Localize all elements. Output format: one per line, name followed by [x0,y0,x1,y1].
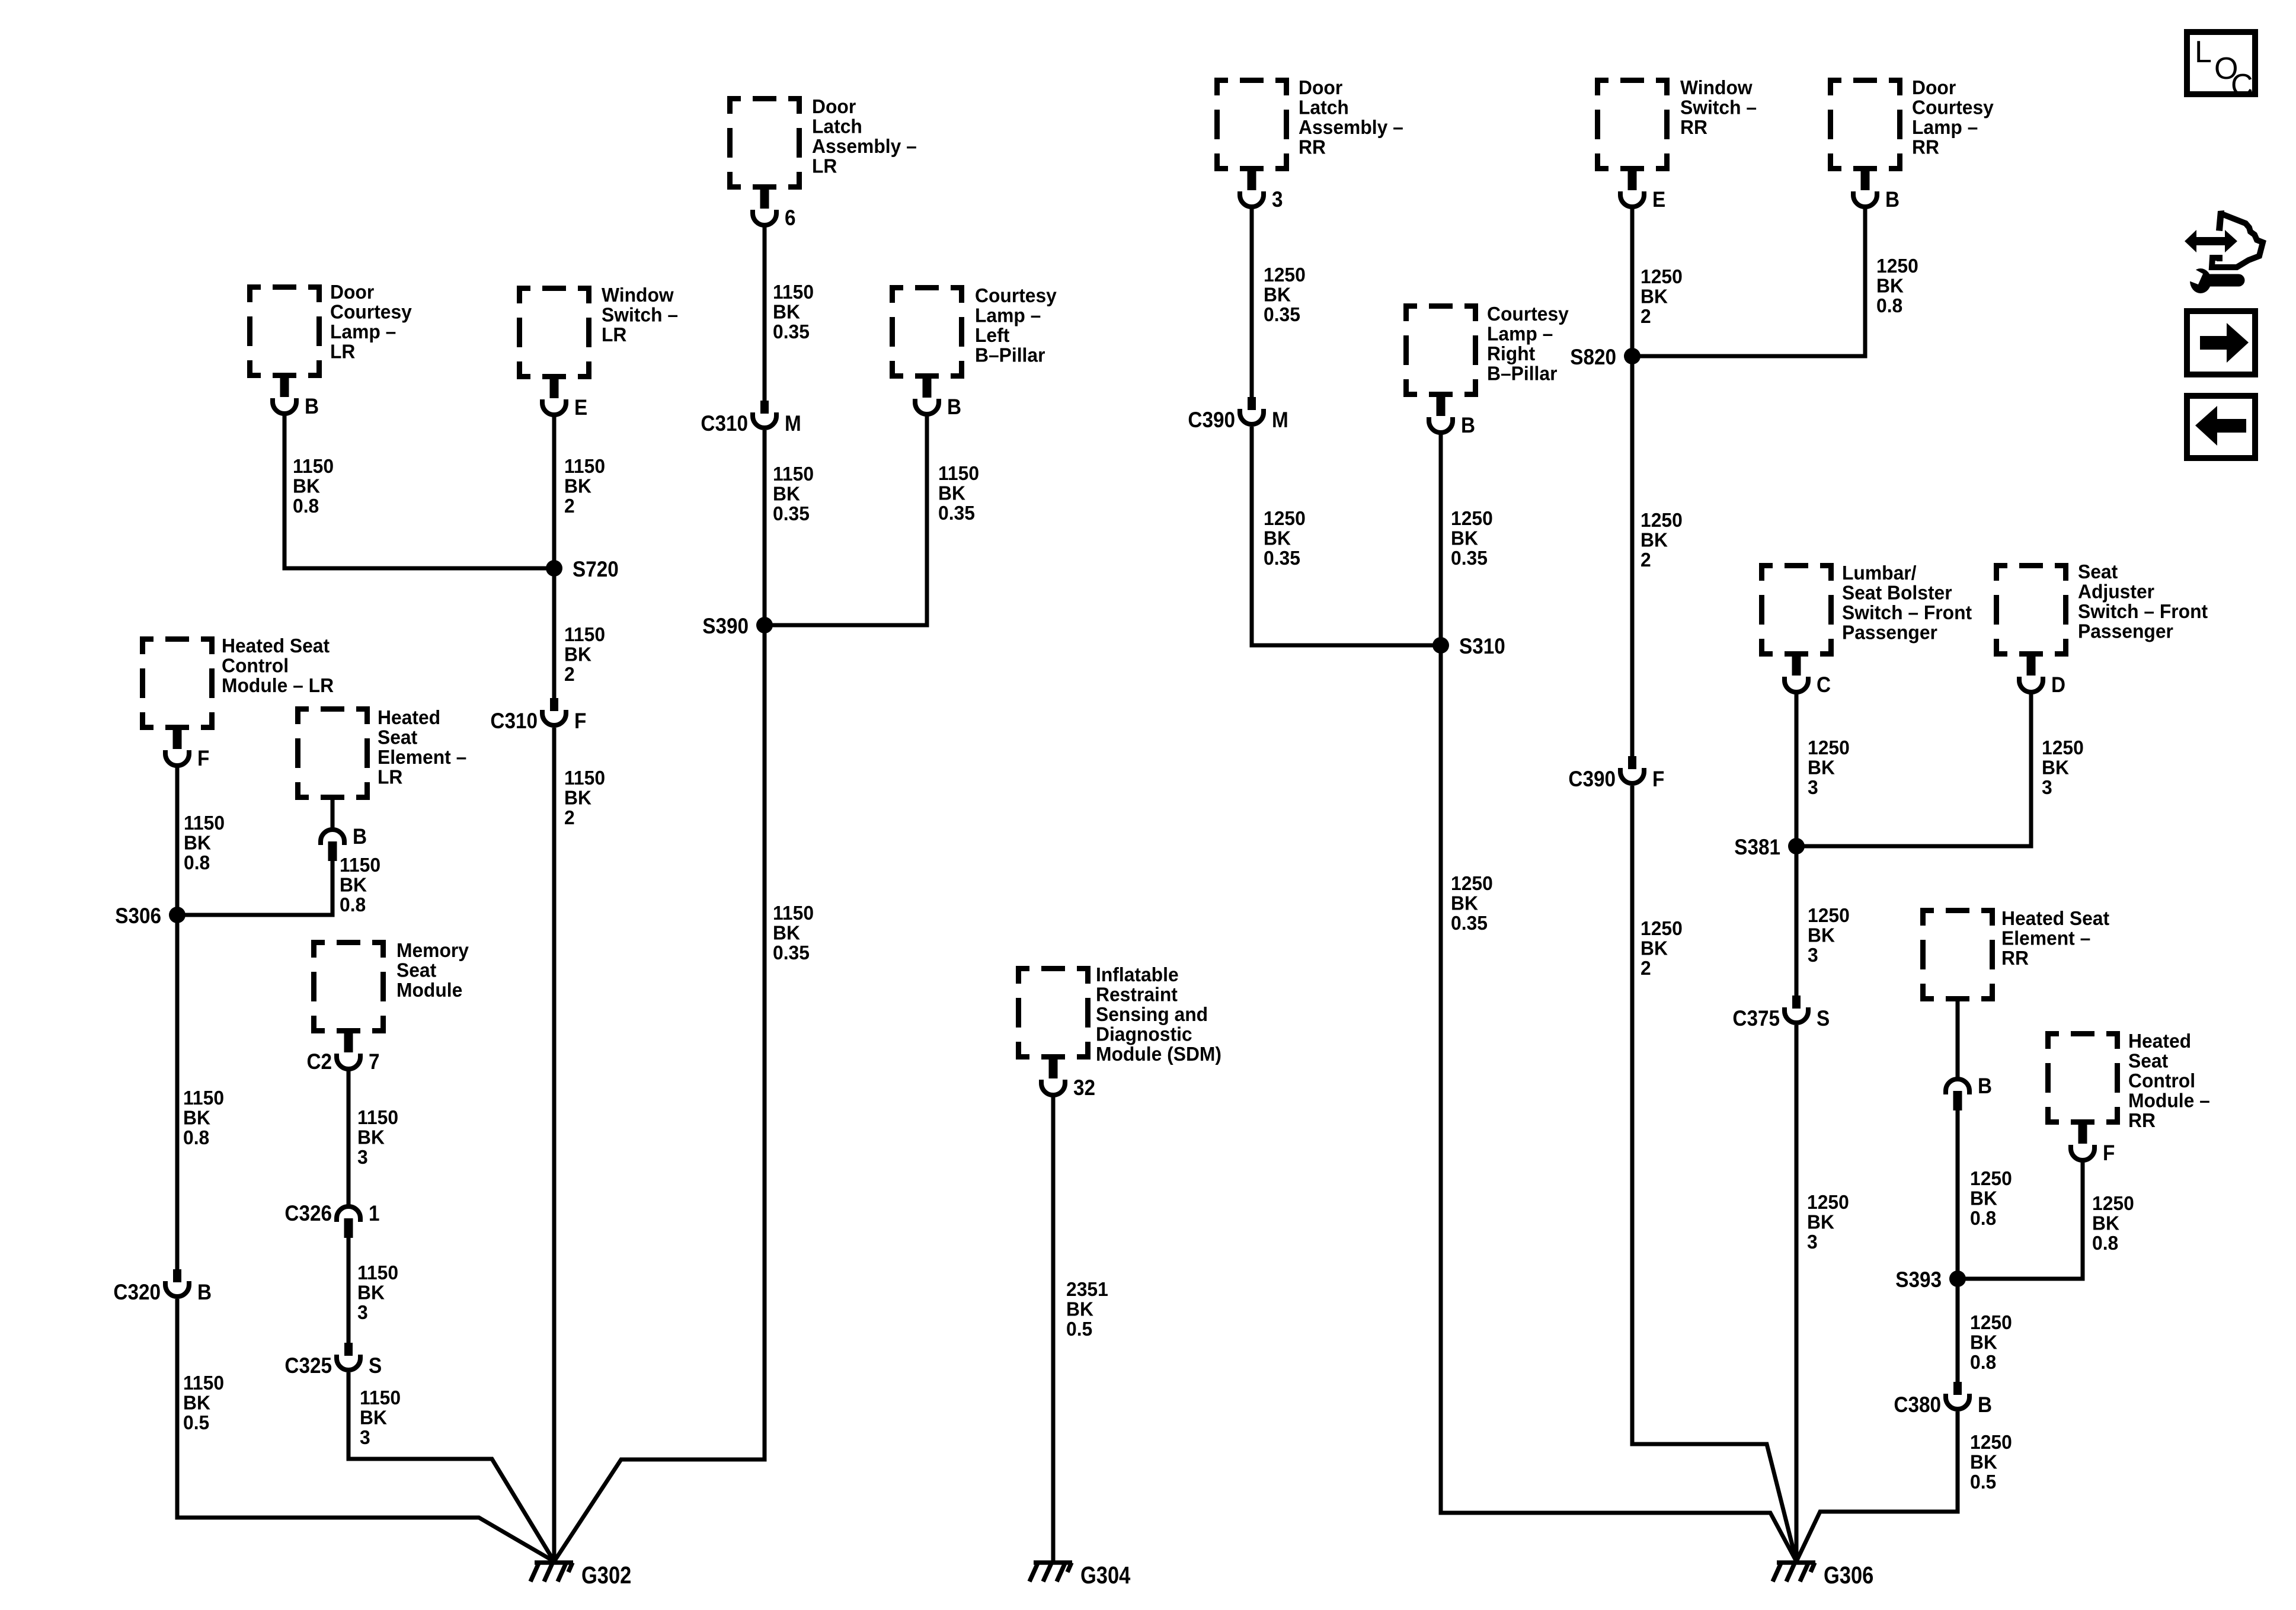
connector pin E: Window Switch - RR [1620,170,1665,212]
svg-text:S381: S381 [1734,835,1780,859]
component box: Door Latch Assembly - LR [727,96,802,190]
svg-text:2: 2 [564,494,575,517]
legend LOC box [2187,32,2255,103]
svg-text:C380: C380 [1894,1393,1941,1417]
svg-text:BK: BK [564,786,591,809]
svg-text:RR: RR [2128,1109,2156,1131]
svg-text:Heated Seat: Heated Seat [2001,907,2109,929]
svg-text:Heated Seat: Heated Seat [222,634,330,657]
svg-text:2: 2 [564,662,575,685]
svg-text:Memory: Memory [396,939,469,961]
wire value label: 1250 BK 0.35 [1451,507,1493,569]
svg-text:B: B [1885,187,1900,212]
svg-text:S310: S310 [1459,634,1505,658]
svg-text:Module (SDM): Module (SDM) [1096,1042,1221,1065]
wire 1150 BK 3 from Memory Seat Module C2 pin 7 to C326 [347,1069,351,1205]
svg-text:Sensing and: Sensing and [1096,1003,1208,1025]
wire value label: 1150 BK 0.35 [773,462,814,524]
svg-text:Diagnostic: Diagnostic [1096,1023,1192,1045]
svg-text:Control: Control [222,654,289,677]
svg-text:F: F [2103,1141,2115,1165]
svg-text:1250: 1250 [2092,1192,2134,1214]
in-line connector C375 pin S: C375 pin S [1732,996,1830,1030]
label: Memory Seat Module description text [396,939,469,1001]
svg-text:1250: 1250 [1641,265,1683,287]
svg-text:1150: 1150 [773,462,814,485]
svg-text:Seat: Seat [2128,1049,2168,1072]
label: Inflatable Restraint Sensing and Diagnostic Module (SDM) description text [1096,963,1221,1065]
svg-text:BK: BK [1451,892,1478,914]
svg-text:Lamp –: Lamp – [975,304,1041,327]
svg-text:Inflatable: Inflatable [1096,963,1179,985]
svg-text:BK: BK [184,831,211,854]
svg-text:BK: BK [938,482,965,504]
svg-text:Door: Door [330,280,374,303]
svg-text:Lamp –: Lamp – [1912,116,1978,138]
ground G304 [1029,1562,1130,1589]
wire value label: 1150 BK 2 [564,766,605,828]
svg-text:C: C [1817,673,1831,697]
svg-text:Latch: Latch [1299,96,1349,119]
svg-text:BK: BK [293,475,320,497]
svg-text:0.8: 0.8 [183,1126,209,1148]
wire 2351 BK 0.5 from SDM pin 32 to G304 [1051,1095,1056,1561]
wire value label: 1250 BK 2 [1641,917,1683,979]
svg-text:Passenger: Passenger [2078,620,2173,642]
svg-text:Element –: Element – [2001,927,2090,949]
svg-text:Courtesy: Courtesy [975,284,1057,306]
in-line connector C310 pin M: C310 pin M [701,401,801,436]
svg-text:0.35: 0.35 [773,502,810,524]
svg-text:3: 3 [1272,187,1283,212]
svg-text:Courtesy: Courtesy [1487,302,1569,325]
component box: Courtesy Lamp - Left B-Pillar [890,285,964,379]
svg-text:BK: BK [773,482,800,505]
splice junction S390 [702,614,773,638]
ground G306 [1773,1562,1873,1589]
wire 1250 BK 3 from S381 to C375 [1795,846,1799,998]
wire 1150 BK 2 from Window Switch LR pin E to S720 [552,415,557,568]
svg-text:0.5: 0.5 [183,1411,209,1433]
svg-text:1150: 1150 [938,462,979,484]
svg-text:BK: BK [1970,1187,1997,1209]
wire 1250 BK 0.35 from C390 M to S310 [1252,427,1441,645]
svg-text:LR: LR [602,323,626,345]
svg-text:BK: BK [183,1106,210,1129]
svg-text:LR: LR [330,340,355,363]
svg-text:S393: S393 [1895,1267,1942,1292]
wire value label: 1250 BK 0.5 [1970,1430,2012,1493]
wire 1150 BK 0.35 from C310 M to S390 [763,430,767,625]
svg-text:C390: C390 [1568,767,1616,791]
wire 1250 BK 3 from C375 S to G306 [1795,1025,1799,1561]
svg-text:Courtesy: Courtesy [1912,96,1994,119]
svg-text:Switch – Front: Switch – Front [1842,601,1972,623]
in-line connector C326 pin 1: C326 pin 1 [284,1201,379,1238]
svg-text:1250: 1250 [1641,508,1683,531]
component box: Lumbar/Seat Bolster Switch - Front Passenger [1759,563,1834,657]
svg-text:0.35: 0.35 [938,501,975,524]
svg-text:1250: 1250 [1451,872,1493,894]
svg-text:0.5: 0.5 [1970,1470,1996,1493]
legend icon: component repair reference (door outline, double arrow, wrench) [2183,210,2263,293]
svg-text:Adjuster: Adjuster [2078,580,2154,603]
splice junction S820 [1570,345,1641,369]
svg-text:BK: BK [1641,285,1668,308]
svg-text:Assembly –: Assembly – [1299,116,1403,138]
svg-text:1150: 1150 [360,1386,401,1409]
wire value label: 1150 BK 0.5 [183,1371,224,1433]
label: Heated Seat Element - RR description text [2001,907,2109,969]
svg-text:1: 1 [369,1201,380,1225]
wire 1250 BK 3 from Seat Adjuster Switch pin D to S381 [1796,692,2031,846]
wire 1150 BK 0.8 from S306 to C320 [175,915,180,1272]
svg-text:C310: C310 [490,709,538,733]
svg-text:Module – LR: Module – LR [222,674,334,696]
svg-text:B–Pillar: B–Pillar [1487,362,1558,385]
svg-text:G302: G302 [581,1562,631,1589]
svg-text:1150: 1150 [773,901,814,924]
svg-text:1150: 1150 [357,1106,398,1128]
svg-text:0.8: 0.8 [1970,1350,1996,1373]
wire 1250 BK 0.8 from S393 to C380 [1956,1279,1960,1384]
connector pin 32: SDM pin 32 [1041,1058,1095,1100]
svg-text:Assembly –: Assembly – [812,135,917,157]
wire value label: 1250 BK 2 [1641,265,1683,327]
svg-text:B: B [1461,413,1475,437]
svg-text:1150: 1150 [564,454,605,477]
svg-text:B: B [1978,1393,1992,1417]
svg-text:RR: RR [1912,136,1939,158]
svg-text:1250: 1250 [1808,736,1850,758]
svg-text:C: C [2231,68,2253,103]
svg-text:C390: C390 [1188,408,1235,432]
connector pin F: Heated Seat Control Module - RR [2071,1124,2115,1165]
svg-text:Seat Bolster: Seat Bolster [1842,581,1952,604]
wire 1150 BK 0.35 from S390 to G302 [554,625,765,1561]
svg-text:Right: Right [1487,342,1535,364]
label: Heated Seat Control Module - LR description text [222,634,334,696]
splice junction S393 [1895,1267,1966,1292]
wire 1150 BK 0.8 from Heated Seat Control Module LR pin F to S306 [175,766,180,915]
svg-text:BK: BK [1808,924,1835,946]
connector pin 3: Door Latch Assembly - RR [1240,170,1283,212]
svg-text:3: 3 [1807,1230,1818,1253]
svg-text:Module –: Module – [2128,1089,2210,1112]
in-line connector C390 pin M: C390 pin M [1188,397,1288,432]
wire 1250 BK 2 from C390 F to G306 [1632,786,1796,1561]
wire value label: 1250 BK 0.35 [1264,263,1306,325]
svg-text:1250: 1250 [1451,507,1493,529]
svg-text:B: B [1978,1074,1992,1098]
svg-text:0.8: 0.8 [293,494,319,517]
component box: Inflatable Restraint Sensing and Diagnostic Module (SDM) [1016,966,1091,1060]
svg-text:S: S [1817,1006,1830,1030]
label: Heated Seat Control Module - RR description text [2128,1029,2210,1131]
svg-text:C2: C2 [306,1049,332,1074]
svg-text:Passenger: Passenger [1842,621,1937,644]
svg-text:0.8: 0.8 [340,893,366,916]
svg-text:LR: LR [812,155,837,177]
svg-text:S720: S720 [573,557,619,581]
svg-text:S: S [369,1353,382,1378]
svg-text:Lumbar/: Lumbar/ [1842,561,1916,584]
svg-text:Switch –: Switch – [1680,96,1757,119]
wire 1250 BK 2 from Window Switch RR pin E to S820 [1630,207,1635,356]
component box: Window Switch - RR [1595,78,1670,171]
svg-text:1250: 1250 [1641,917,1683,939]
svg-text:Restraint: Restraint [1096,983,1178,1006]
wire from Heated Seat Element RR to pin B [1956,1001,1960,1078]
svg-text:C375: C375 [1732,1006,1780,1030]
svg-text:1150: 1150 [564,766,605,789]
wire 1250 BK 0.8 from Heated Seat Control Module RR pin F to S393 [1958,1160,2083,1279]
wire 1250 BK 3 from Lumbar Switch pin C to S381 [1795,692,1799,846]
svg-text:Door: Door [1299,76,1342,98]
svg-text:BK: BK [340,873,367,896]
svg-text:Lamp –: Lamp – [1487,322,1553,345]
connector pin 6: Door Latch Assembly - LR [753,188,796,230]
svg-text:BK: BK [1641,529,1668,551]
wire value label: 1250 BK 0.8 [2092,1192,2134,1254]
svg-text:Lamp –: Lamp – [330,320,396,343]
svg-text:1250: 1250 [2042,736,2084,758]
svg-text:BK: BK [564,643,591,665]
in-line connector C310 pin F: C310 pin F [490,698,586,733]
svg-text:1250: 1250 [1807,1190,1849,1213]
wire 1150 BK 0.5 from C320 B to G302 [177,1299,554,1561]
label: Door Latch Assembly - LR description text [812,95,917,177]
wire 1150 BK 0.8 from Door Courtesy Lamp LR pin B to S720 [284,414,554,568]
svg-text:M: M [785,411,801,436]
wire value label: 1150 BK 0.35 [773,901,814,964]
svg-text:G306: G306 [1824,1562,1873,1589]
svg-text:RR: RR [2001,946,2029,969]
svg-text:Heated: Heated [2128,1029,2191,1052]
label: Seat Adjuster Switch - Front Passenger description text [2078,560,2208,642]
wire 1250 BK 0.35 from Door Latch RR pin 3 to C390 M [1250,207,1254,399]
wire value label: 1250 BK 0.35 [1264,507,1306,569]
wire from Heated Seat Element LR to pin B [331,800,335,828]
svg-text:1150: 1150 [293,454,334,477]
connector pin B: Door Courtesy Lamp - LR [273,377,319,418]
svg-text:1150: 1150 [340,853,380,876]
wire 1150 BK 0.35 from Door Latch LR pin 6 to C310 M [763,225,767,403]
component box: Memory Seat Module [311,940,386,1033]
svg-text:M: M [1272,408,1288,432]
svg-text:B: B [197,1280,212,1304]
svg-text:1250: 1250 [1970,1311,2012,1333]
svg-text:2351: 2351 [1066,1278,1108,1300]
svg-text:Switch – Front: Switch – Front [2078,600,2208,622]
label: Lumbar/Seat Bolster Switch - Front Passenger description text [1842,561,1972,643]
wire value label: 1150 BK 3 [357,1106,398,1168]
svg-text:Seat: Seat [2078,560,2118,582]
in-line connector pin B: Heated Seat Element LR pin B [321,824,367,861]
label: Door Latch Assembly - RR description text [1299,76,1403,158]
svg-text:1250: 1250 [1970,1167,2012,1189]
wire value label: 1250 BK 3 [1808,736,1850,798]
label: Window Switch - LR description text [602,283,678,345]
component box: Heated Seat Control Module - RR [2045,1031,2120,1125]
wire 1250 BK 0.5 from C380 B to G306 [1796,1411,1958,1561]
wire value label: 1150 BK 3 [360,1386,401,1448]
svg-text:1150: 1150 [184,811,225,834]
in-line connector C320 pin B: C320 pin B [113,1269,212,1304]
svg-text:1150: 1150 [773,280,814,303]
component box: Door Courtesy Lamp - RR [1828,78,1902,171]
wire 1150 BK 0.35 from Courtesy Lamp Left B-Pillar pin B to S390 [765,414,927,625]
svg-text:1150: 1150 [183,1371,224,1394]
wire value label: 1250 BK 3 [1807,1190,1849,1253]
svg-text:0.35: 0.35 [1451,911,1488,934]
splice junction S306 [115,904,186,928]
svg-text:1250: 1250 [1264,263,1306,286]
connector pin C: Lumbar/Seat Bolster Switch - Front Passenger [1785,655,1831,697]
svg-text:2: 2 [564,806,575,828]
component box: Heated Seat Control Module - LR [140,636,215,730]
svg-text:BK: BK [1970,1451,1997,1473]
connector pin E: Window Switch - LR [542,378,587,420]
wire value label: 1250 BK 3 [1808,904,1850,966]
svg-text:0.35: 0.35 [1264,546,1300,569]
splice junction S720 [546,557,619,581]
svg-text:BK: BK [1876,274,1904,297]
label: Courtesy Lamp - Right B-Pillar description text [1487,302,1569,384]
svg-text:Window: Window [602,283,674,306]
svg-text:7: 7 [369,1049,380,1074]
label: Courtesy Lamp - Left B-Pillar description text [975,284,1057,366]
svg-text:1250: 1250 [1876,254,1918,277]
connector pin D: Seat Adjuster Switch - Front Passenger [2019,655,2065,697]
wire 1250 BK 0.8 from Heated Seat Element RR pin B to S393 [1956,1109,1960,1279]
component box: Heated Seat Element - RR [1920,908,1995,1001]
wire value label: 1250 BK 0.35 [1451,872,1493,934]
svg-text:BK: BK [773,921,800,944]
svg-text:C326: C326 [284,1201,332,1225]
wire value label: 1250 BK 0.8 [1970,1311,2012,1373]
connector pin B: Courtesy Lamp - Left B-Pillar [915,377,961,419]
wire value label: 1150 BK 2 [564,454,605,517]
svg-text:S390: S390 [702,614,749,638]
svg-text:S306: S306 [115,904,161,928]
wire 1150 BK 3 from C326 to C325 [347,1236,351,1345]
wire 1250 BK 2 from S820 to C390 F [1630,356,1635,758]
wire 1250 BK 0.35 from Courtesy Lamp Right B-Pillar pin B to S310 [1439,433,1443,645]
svg-text:D: D [2051,673,2065,697]
component box: Door Latch Assembly - RR [1214,78,1289,171]
wire value label: 1150 BK 0.8 [293,454,334,517]
svg-text:1150: 1150 [183,1086,224,1109]
svg-text:0.35: 0.35 [773,941,810,964]
svg-text:BK: BK [2092,1212,2119,1234]
svg-text:BK: BK [564,475,591,497]
component box: Window Switch - LR [517,286,591,379]
svg-text:2: 2 [1641,956,1651,979]
svg-text:Seat: Seat [378,726,417,748]
svg-text:BK: BK [1264,527,1291,549]
svg-text:2: 2 [1641,305,1651,327]
wire value label: 1150 BK 0.8 [183,1086,224,1148]
svg-text:B–Pillar: B–Pillar [975,344,1045,366]
svg-text:BK: BK [1066,1298,1093,1320]
legend forward arrow box [2187,311,2255,375]
svg-text:G304: G304 [1080,1562,1130,1589]
component box: Seat Adjuster Switch - Front Passenger [1994,563,2068,657]
svg-text:BK: BK [1451,527,1478,549]
connector pin B: Courtesy Lamp - Right B-Pillar [1429,396,1475,437]
component box: Courtesy Lamp - Right B-Pillar [1403,303,1478,397]
component box: Heated Seat Element - LR [295,706,370,800]
svg-text:3: 3 [1808,776,1818,798]
wire value label: 1150 BK 0.8 [184,811,225,873]
svg-text:LR: LR [378,766,402,788]
svg-text:1250: 1250 [1264,507,1306,529]
svg-text:3: 3 [360,1426,370,1448]
svg-text:1150: 1150 [564,623,605,645]
in-line connector C325 pin S: C325 pin S [284,1343,382,1378]
svg-text:Courtesy: Courtesy [330,300,412,323]
svg-text:BK: BK [1807,1211,1834,1233]
connector pin F: Heated Seat Control Module - LR [165,729,209,770]
wire value label: 1250 BK 0.8 [1970,1167,2012,1229]
svg-text:1150: 1150 [357,1261,398,1283]
svg-text:3: 3 [357,1301,368,1323]
svg-text:E: E [574,395,587,420]
svg-text:BK: BK [357,1281,385,1304]
label: Door Courtesy Lamp - LR description text [330,280,412,362]
in-line connector C2 pin 7: Memory Seat Module [306,1032,379,1074]
wire 1250 BK 0.35 from S310 to G306 [1441,645,1796,1561]
svg-text:Switch –: Switch – [602,303,678,326]
svg-text:32: 32 [1073,1076,1095,1100]
wire value label: 1250 BK 2 [1641,508,1683,571]
wire value label: 1250 BK 3 [2042,736,2084,798]
label: Window Switch - RR description text [1680,76,1757,138]
svg-text:0.8: 0.8 [184,851,210,873]
svg-text:Latch: Latch [812,115,862,137]
label: Door Courtesy Lamp - RR description text [1912,76,1994,158]
in-line connector C380 pin B: C380 pin B [1894,1382,1992,1417]
svg-text:BK: BK [1264,283,1291,306]
svg-text:1250: 1250 [1970,1430,2012,1453]
component box: Door Courtesy Lamp - LR [247,284,322,378]
svg-text:0.35: 0.35 [773,320,810,343]
svg-text:0.8: 0.8 [1970,1206,1996,1229]
svg-text:3: 3 [357,1145,368,1168]
svg-text:B: B [305,394,319,418]
svg-text:Element –: Element – [378,745,466,768]
svg-text:0.8: 0.8 [2092,1231,2118,1254]
wire 1150 BK 0.8 from Heated Seat Element LR pin B to S306 [177,859,332,915]
svg-text:E: E [1652,187,1665,212]
svg-text:RR: RR [1299,136,1326,158]
svg-text:Heated: Heated [378,706,440,728]
wire 1150 BK 2 from S720 to C310 F [552,568,557,700]
svg-text:C320: C320 [113,1280,161,1304]
svg-text:BK: BK [773,300,800,323]
wire value label: 2351 BK 0.5 [1066,1278,1108,1340]
wire value label: 1150 BK 0.35 [938,462,979,524]
svg-text:BK: BK [1808,756,1835,779]
wire value label: 1250 BK 0.8 [1876,254,1918,316]
wire value label: 1150 BK 0.8 [340,853,380,916]
svg-text:Door: Door [812,95,856,117]
svg-text:0.8: 0.8 [1876,294,1902,316]
svg-text:BK: BK [1641,937,1668,959]
splice junction S310 [1432,634,1505,658]
svg-text:0.35: 0.35 [1451,546,1488,569]
